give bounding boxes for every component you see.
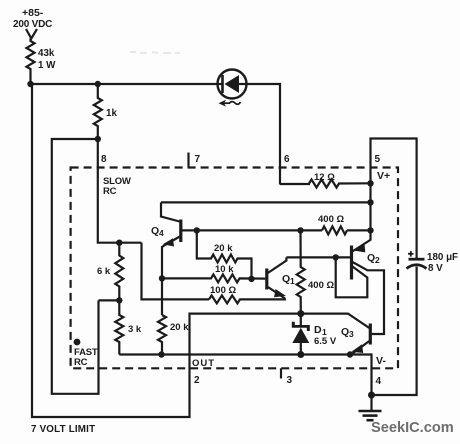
node top internal rail to V+ rail <box>367 199 373 205</box>
svg-text:5: 5 <box>375 154 381 165</box>
svg-text:3: 3 <box>287 375 293 386</box>
resistor 10k horizontal <box>162 264 265 282</box>
svg-text:12 Ω: 12 Ω <box>314 172 335 183</box>
svg-text:2: 2 <box>375 255 380 265</box>
svg-text:180 μF: 180 μF <box>427 252 458 263</box>
svg-text:100 Ω: 100 Ω <box>210 285 236 296</box>
node 1k top junction <box>95 81 101 87</box>
resistor 1k <box>94 84 118 139</box>
svg-text:20 k: 20 k <box>214 243 233 254</box>
node 6k bottom / fast RC <box>116 297 122 303</box>
resistor 43k 1W <box>27 39 57 85</box>
wire Q4 emitter drop <box>162 245 165 278</box>
node pin4 ground junction <box>368 392 375 399</box>
resistor 20k horizontal <box>197 230 252 279</box>
svg-text:Q: Q <box>151 225 159 237</box>
svg-text:4: 4 <box>159 228 164 238</box>
node 6k top <box>116 240 122 246</box>
svg-text:43k: 43k <box>38 48 55 59</box>
svg-text:V-: V- <box>376 355 386 367</box>
node Q2 emitter junction <box>367 227 373 233</box>
svg-text:6: 6 <box>284 154 290 165</box>
zener diode D1 6.5V <box>292 314 337 355</box>
faint scan ghost smudge <box>130 52 180 53</box>
wire 6k bottom to fast RC loop <box>99 299 120 301</box>
wire OUT pin 2 net <box>32 84 301 417</box>
transistor Q1 <box>267 257 295 298</box>
svg-text:2: 2 <box>194 375 200 386</box>
wire V+ pin 5 rail and top loop <box>371 139 417 260</box>
node Q2 base mirror junction <box>333 254 339 260</box>
resistor 100 ohm <box>209 285 286 303</box>
wire Q4 base rail <box>181 229 322 231</box>
wire bottom internal rail <box>119 355 371 396</box>
svg-text:6.5 V: 6.5 V <box>314 336 337 347</box>
svg-text:SeekIC.com: SeekIC.com <box>371 420 454 436</box>
svg-text:Q: Q <box>341 326 349 338</box>
node D1 bottom junction <box>297 351 304 358</box>
label FAST RC <box>74 339 81 346</box>
resistor 3k <box>115 300 142 354</box>
svg-text:200 VDC: 200 VDC <box>13 19 52 30</box>
node 400 ohm vertical tap <box>297 227 303 233</box>
node 20k vert bottom <box>158 351 164 357</box>
capacitor C1 180uF 8V <box>372 251 459 395</box>
svg-text:7: 7 <box>195 154 201 165</box>
node Q4 base to 20k <box>194 227 200 233</box>
svg-text:3 k: 3 k <box>128 324 142 335</box>
transistor Q3 <box>301 314 371 354</box>
svg-text:1: 1 <box>290 276 295 286</box>
svg-text:D: D <box>314 324 322 336</box>
wire Q4 emitter to 20k vertical <box>161 278 163 315</box>
svg-text:Q: Q <box>282 273 290 285</box>
svg-text:6 k: 6 k <box>97 266 111 277</box>
svg-text:RC: RC <box>103 186 117 197</box>
wire top rail <box>31 83 218 85</box>
svg-text:1k: 1k <box>106 108 117 119</box>
resistor 400 ohm horizontal <box>318 214 371 234</box>
svg-text:3: 3 <box>349 329 354 339</box>
resistor 20k vertical <box>158 315 189 355</box>
node top-left junction <box>27 81 33 87</box>
node 20k to Q1 base junction <box>248 276 254 282</box>
svg-text:4: 4 <box>376 376 382 387</box>
svg-text:1 W: 1 W <box>38 60 56 71</box>
svg-text:Q: Q <box>367 252 375 264</box>
svg-text:V+: V+ <box>377 170 390 182</box>
svg-text:OUT: OUT <box>192 358 215 369</box>
node D1 top junction <box>297 310 304 317</box>
svg-text:RC: RC <box>74 357 88 368</box>
svg-text:10 k: 10 k <box>215 264 234 275</box>
wire LED to pin 6 <box>247 84 281 185</box>
wire to 100 ohm <box>142 243 210 300</box>
svg-text:400 Ω: 400 Ω <box>308 280 334 291</box>
wire internal top rail <box>161 201 371 203</box>
resistor 12 ohm <box>280 172 371 188</box>
transistor Q4 <box>151 202 181 246</box>
wire Q1 collector to Q2 base <box>286 256 351 258</box>
transistor Q2 <box>336 230 384 334</box>
pin 3 <box>280 368 282 378</box>
svg-text:20 k: 20 k <box>170 322 189 333</box>
node 12ohm to rail <box>367 180 373 186</box>
svg-text:400 Ω: 400 Ω <box>318 214 344 225</box>
IC package dashed outline <box>71 168 398 369</box>
ground <box>359 395 382 420</box>
wire slow RC loop left <box>52 139 99 394</box>
wire pin 8 drop <box>98 139 142 243</box>
svg-text:8: 8 <box>101 154 107 165</box>
node 10k Q4 emitter junction <box>159 275 165 281</box>
svg-text:7 VOLT LIMIT: 7 VOLT LIMIT <box>31 424 95 435</box>
svg-text:+85-: +85- <box>22 7 44 19</box>
resistor 6k <box>97 243 123 301</box>
LED indicator lamp <box>218 70 247 107</box>
input terminal +85-200 VDC <box>13 7 52 39</box>
node Q3 emitter junction <box>347 351 353 357</box>
resistor 400 ohm vertical <box>297 230 335 313</box>
node 1k bottom junction <box>95 136 101 142</box>
pin 7 <box>187 153 189 168</box>
svg-text:8 V: 8 V <box>428 263 443 274</box>
